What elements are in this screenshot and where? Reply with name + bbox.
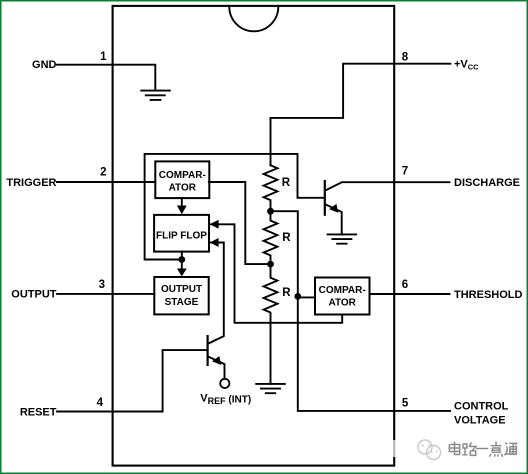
svg-text:5: 5 (402, 397, 409, 409)
svg-text:8: 8 (402, 52, 409, 64)
svg-text:2: 2 (100, 167, 106, 179)
svg-text:COMPAR-: COMPAR- (159, 170, 206, 181)
svg-text:4: 4 (97, 397, 104, 409)
svg-text:ATOR: ATOR (169, 183, 197, 194)
svg-text:RESET: RESET (20, 407, 57, 419)
svg-text:R: R (282, 287, 291, 299)
svg-text:ATOR: ATOR (328, 297, 356, 308)
svg-text:1: 1 (100, 51, 107, 63)
svg-text:DISCHARGE: DISCHARGE (454, 177, 520, 189)
svg-text:GND: GND (32, 59, 57, 71)
svg-text:6: 6 (402, 279, 408, 291)
svg-text:VOLTAGE: VOLTAGE (454, 415, 506, 427)
svg-text:STAGE: STAGE (165, 297, 199, 308)
svg-text:COMPAR-: COMPAR- (319, 285, 366, 296)
svg-text:3: 3 (99, 279, 105, 291)
svg-text:CONTROL: CONTROL (454, 401, 509, 413)
svg-text:OUTPUT: OUTPUT (11, 289, 57, 301)
svg-text:THRESHOLD: THRESHOLD (454, 289, 523, 301)
svg-text:R: R (282, 177, 291, 189)
svg-text:FLIP FLOP: FLIP FLOP (156, 231, 207, 242)
svg-text:TRIGGER: TRIGGER (6, 177, 56, 189)
svg-text:7: 7 (402, 166, 408, 178)
svg-text:R: R (282, 232, 291, 244)
svg-text:OUTPUT: OUTPUT (161, 284, 202, 295)
